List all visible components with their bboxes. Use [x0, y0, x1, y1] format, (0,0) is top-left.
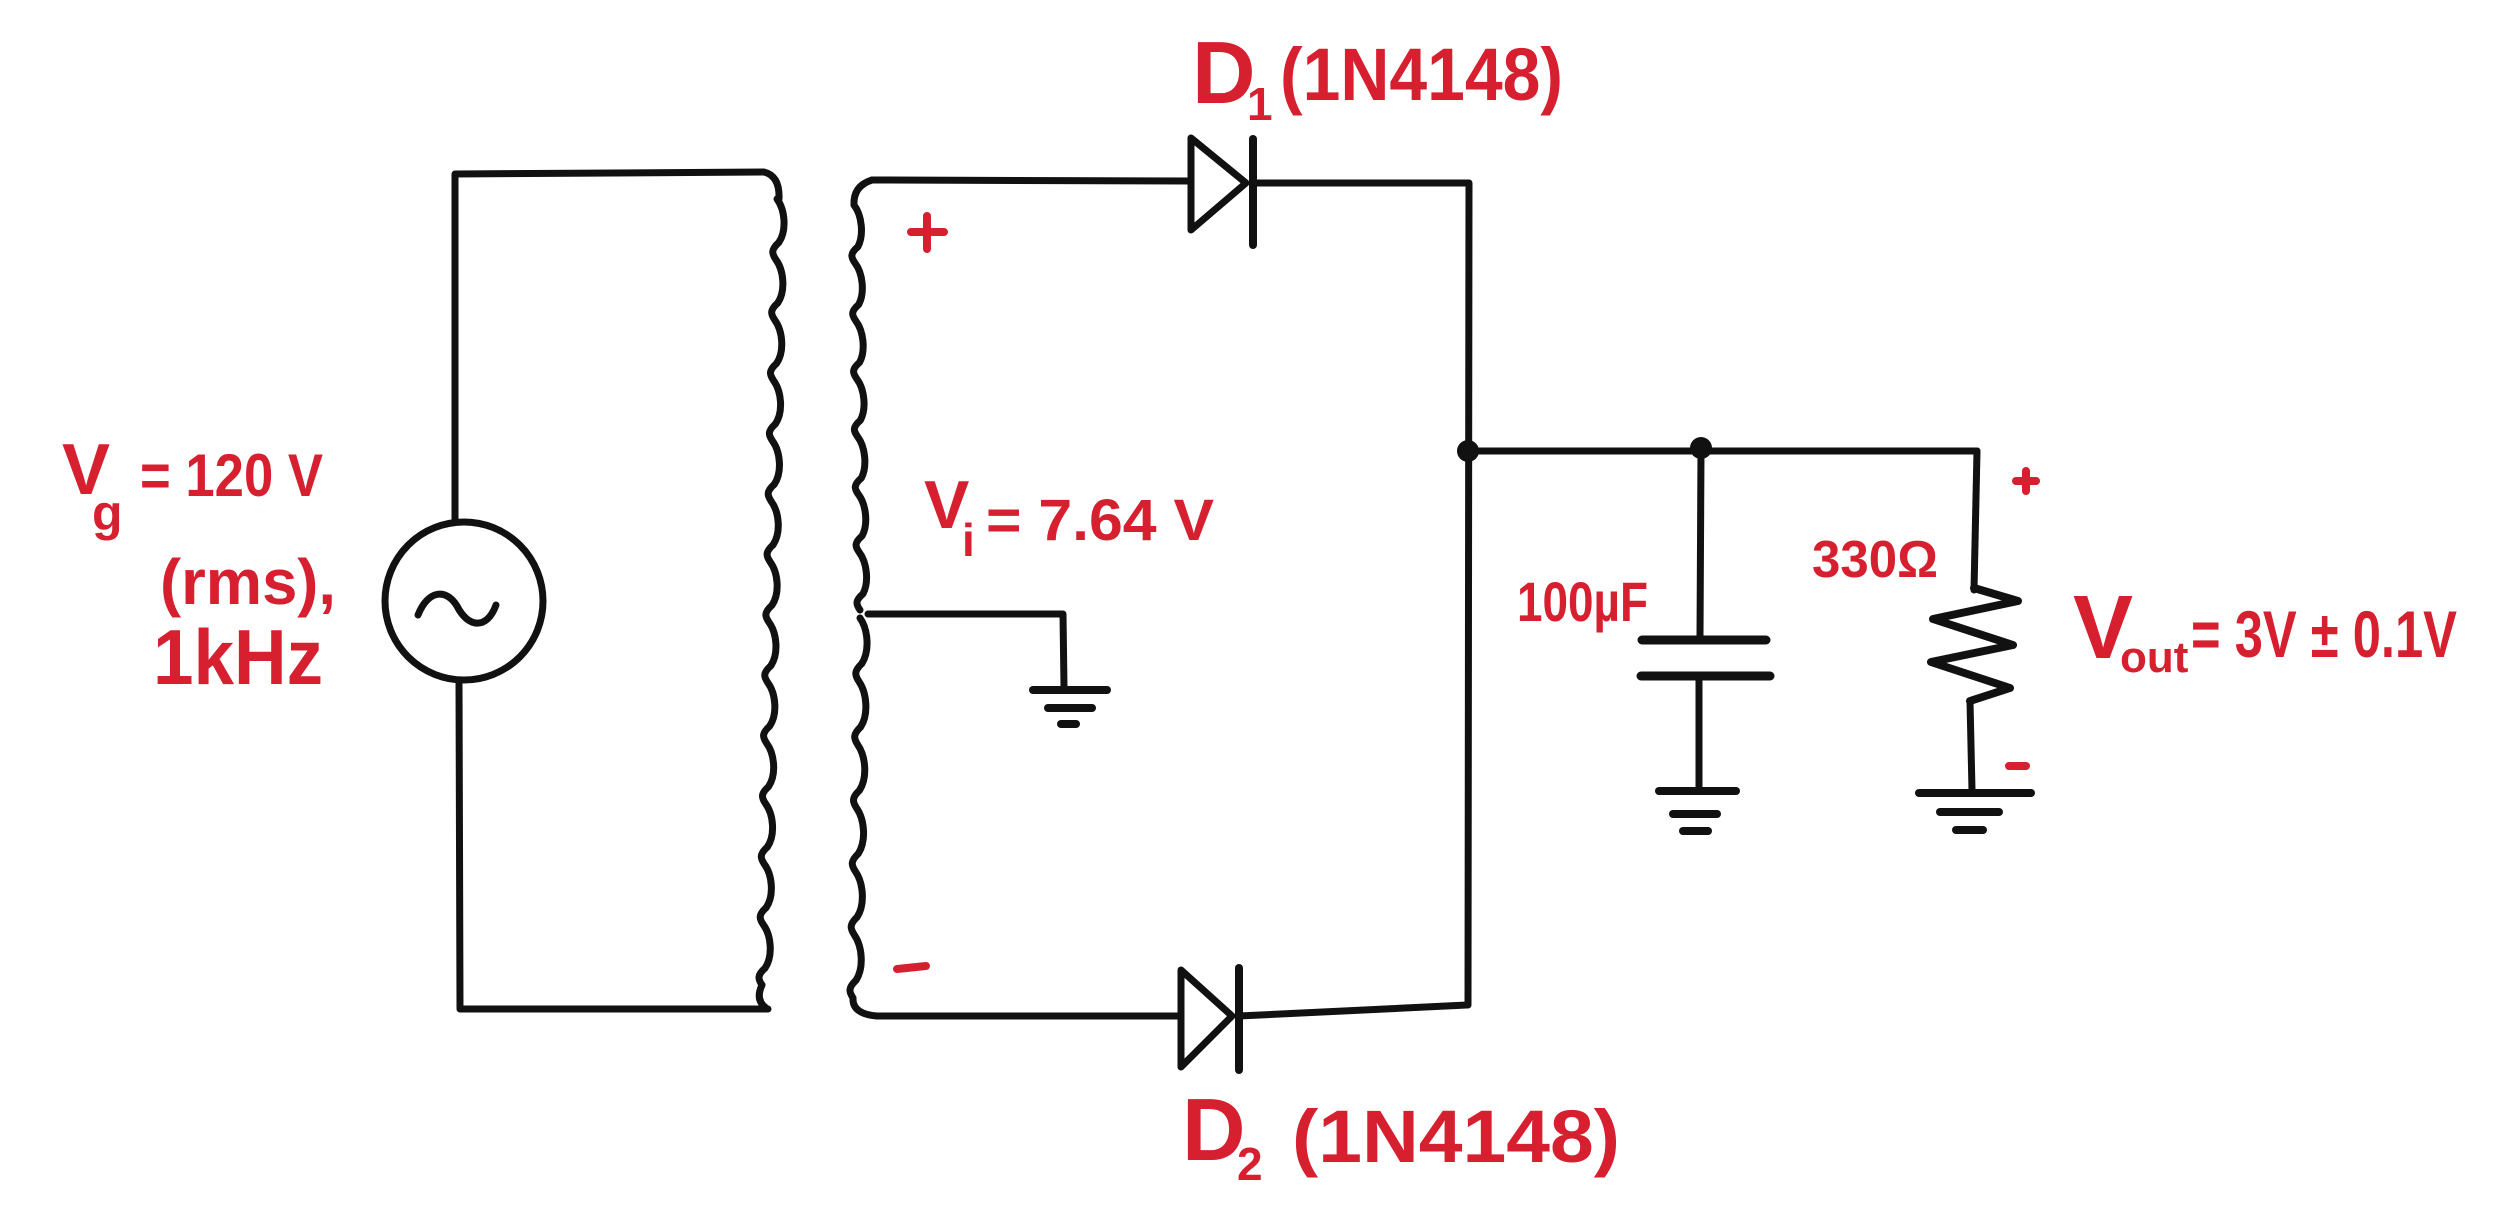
svg-text:(rms),: (rms),	[160, 546, 336, 618]
svg-text:1kHz: 1kHz	[153, 613, 323, 701]
svg-text:1: 1	[1247, 78, 1273, 130]
svg-text:= 120 V: = 120 V	[140, 442, 323, 509]
svg-text:= 3V ± 0.1V: = 3V ± 0.1V	[2191, 597, 2457, 671]
svg-text:(1N4148): (1N4148)	[1280, 33, 1563, 116]
svg-text:(1N4148): (1N4148)	[1292, 1095, 1620, 1178]
svg-text:2: 2	[1237, 1138, 1263, 1190]
svg-text:330Ω: 330Ω	[1812, 531, 1938, 589]
svg-text:out: out	[2120, 633, 2189, 682]
svg-text:100µF: 100µF	[1517, 570, 1648, 633]
svg-text:g: g	[92, 485, 123, 541]
svg-text:= 7.64 V: = 7.64 V	[986, 488, 1214, 553]
svg-text:i: i	[962, 514, 975, 566]
